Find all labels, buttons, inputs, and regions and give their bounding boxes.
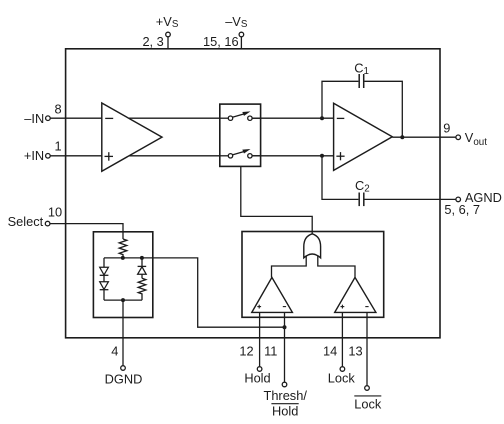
wire pin 14 Lock (341, 312, 343, 366)
diode D2 (100, 282, 109, 290)
op-amp U1 (102, 103, 162, 171)
wire Select to resistor (50, 224, 123, 239)
node network bottom junction (121, 298, 125, 302)
label Hold (244, 371, 270, 386)
svg-text:14: 14 (323, 344, 337, 359)
resistor R2 (138, 278, 146, 300)
label pin 13 (348, 344, 362, 359)
diode D1 (100, 267, 109, 275)
diode D3 (138, 266, 147, 274)
svg-text:DGND: DGND (105, 371, 143, 386)
svg-text:4: 4 (111, 344, 118, 359)
wire SW2 stubs inside box (220, 155, 261, 157)
op-amp U2 (334, 103, 393, 170)
wire right branch to D3 (141, 258, 143, 267)
node U2 output junction (400, 135, 404, 139)
node threshold junction on pin 11 wire (283, 325, 287, 329)
resistor R1 (119, 239, 127, 258)
label pin 10 (48, 205, 62, 220)
switch SW2 (lower) (228, 149, 252, 158)
terminal Vout pin (456, 135, 461, 140)
terminal +Vs pin (166, 32, 171, 37)
svg-text:Thresh/: Thresh/ (264, 388, 308, 403)
wire C1 feedback right leg (364, 81, 402, 137)
wire U2 output to Vout (392, 136, 455, 138)
label Lock (active low) (354, 397, 382, 412)
terminal AGND pin (456, 197, 461, 202)
label pin 4 (111, 344, 118, 359)
wire -Vs pin stub (240, 37, 242, 50)
wire pin 13 Lock-bar (366, 312, 368, 385)
terminal Lock-bar pin (365, 386, 370, 391)
svg-text:–IN: –IN (24, 111, 44, 126)
wire network top rail (104, 257, 142, 259)
label pin numbers 2, 3 (142, 34, 163, 49)
wire -IN to switch (50, 117, 228, 119)
svg-text:Lock: Lock (328, 371, 356, 386)
svg-text:12: 12 (239, 344, 253, 359)
terminal -Vs pin (239, 32, 244, 37)
svg-text:Select: Select (8, 214, 44, 229)
comparator A1 (252, 277, 293, 312)
wire +IN to switch (50, 155, 228, 157)
label -IN (24, 111, 44, 126)
svg-text:5, 6, 7: 5, 6, 7 (444, 202, 480, 217)
label pin 12 (239, 344, 253, 359)
wire U2 non-inverting tap to C2 (322, 156, 358, 200)
label Select (8, 214, 44, 229)
label pin 1 (54, 138, 61, 153)
svg-text:8: 8 (54, 101, 61, 116)
OR gate G1 (304, 234, 321, 258)
label +Vs (156, 14, 179, 30)
svg-text:2, 3: 2, 3 (142, 34, 163, 49)
wire D3 to R2 (141, 274, 143, 278)
svg-text:Hold: Hold (272, 404, 298, 419)
comparator A2 (335, 277, 376, 312)
capacitor C2 (359, 193, 364, 207)
label C2 (355, 178, 370, 195)
terminal DGND pin (121, 366, 126, 371)
logic block box (242, 232, 384, 318)
svg-text:15, 16: 15, 16 (203, 34, 239, 49)
wire between D1 and D2 (103, 275, 105, 282)
wire left diode branch upper (103, 258, 105, 267)
wire pin 12 Hold (259, 312, 261, 366)
wire left diode branch lower (103, 290, 105, 300)
terminal +IN pin (46, 154, 51, 159)
terminal Lock pin (340, 367, 345, 372)
wire C2 to AGND (365, 198, 456, 200)
wire C1 feedback left leg (322, 81, 358, 118)
label Hold (active low) (272, 404, 298, 419)
switch SW1 (upper) (228, 111, 252, 120)
wire SW1 stubs inside box (220, 117, 261, 119)
wire gate input right stub (318, 252, 355, 277)
svg-text:Hold: Hold (244, 371, 270, 386)
node R1 bottom junction (121, 256, 125, 260)
svg-text:10: 10 (48, 205, 62, 220)
label pin 8 (54, 101, 61, 116)
wire network to DGND (122, 300, 124, 365)
label Lock overline (354, 395, 381, 397)
label DGND (105, 371, 143, 386)
node top-right rail junction (140, 256, 144, 260)
svg-text:Lock: Lock (354, 397, 382, 412)
switch box (220, 104, 261, 166)
label -Vs (225, 14, 248, 30)
terminal Select pin (45, 221, 50, 226)
label pin 9 (443, 121, 450, 136)
svg-text:+IN: +IN (24, 148, 44, 163)
svg-text:11: 11 (264, 344, 277, 359)
svg-text:13: 13 (348, 344, 362, 359)
IC outline box (66, 49, 440, 338)
wire switch control from gate (241, 166, 312, 235)
node U2 non-inverting input junction (320, 154, 324, 158)
wire switch to U2 non-inverting input (253, 155, 335, 157)
threshold network box (93, 232, 152, 318)
label Lock (328, 371, 356, 386)
wire pin 11 Thresh/Hold (284, 312, 286, 382)
label Vout (465, 130, 487, 148)
label Thresh/ (264, 388, 308, 403)
terminal Thresh/Hold pin (282, 382, 287, 387)
label +IN (24, 148, 44, 163)
terminal Hold pin (257, 367, 262, 372)
wire +Vs pin stub (167, 37, 169, 50)
node U2 inverting input junction (320, 116, 324, 120)
svg-text:1: 1 (54, 138, 61, 153)
label pin 11 (264, 344, 277, 359)
wire network bottom rail (104, 299, 142, 301)
wire gate input left stub (272, 252, 307, 277)
svg-text:9: 9 (443, 121, 450, 136)
wire switch to U2 inverting input (253, 117, 335, 119)
wire threshold to comparator A1 inverting (142, 258, 285, 327)
label C1 (354, 61, 369, 78)
label Hold overline (271, 403, 298, 405)
label pin numbers 15, 16 (203, 34, 239, 49)
capacitor C1 (359, 74, 364, 88)
label AGND (465, 190, 502, 205)
label pin 14 (323, 344, 337, 359)
label pin numbers 5, 6, 7 (444, 202, 480, 217)
terminal -IN pin (46, 116, 51, 121)
